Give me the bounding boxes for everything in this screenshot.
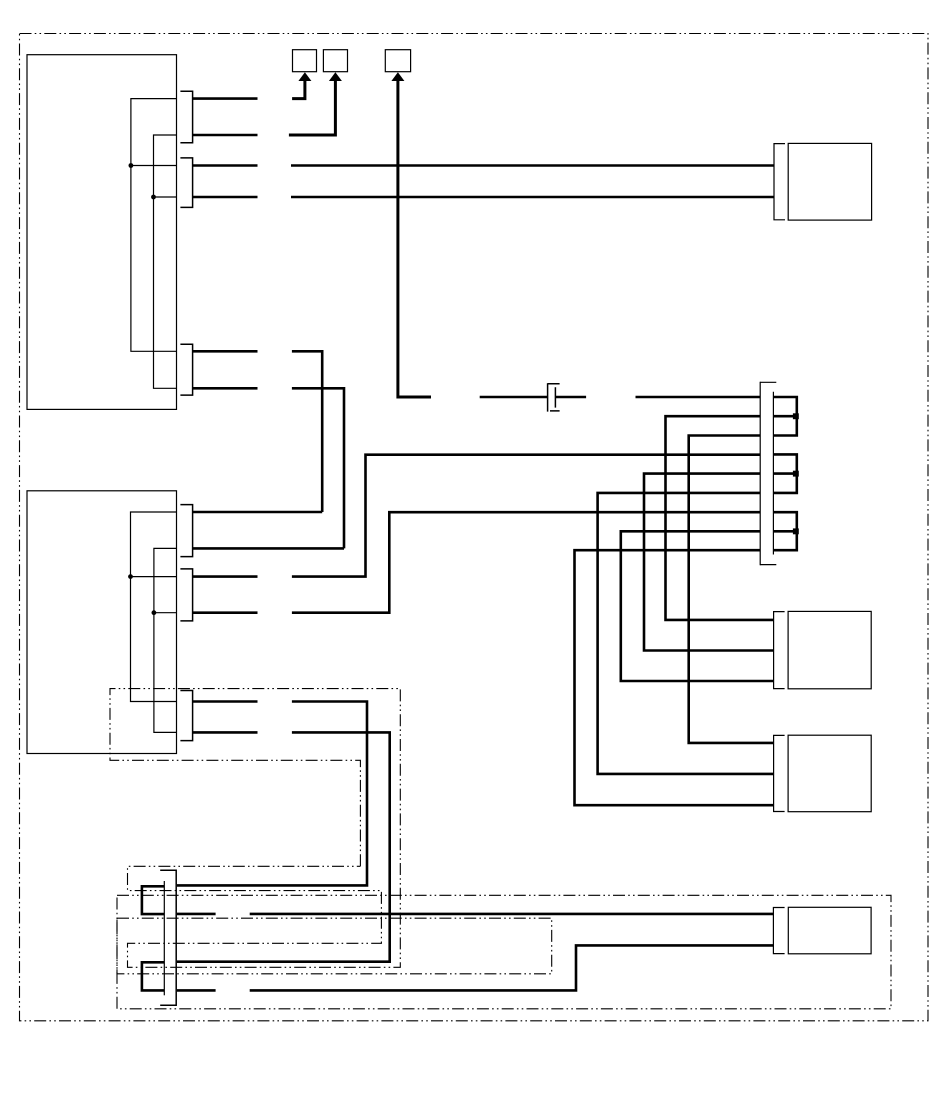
- connector C4 bracket: [180, 505, 192, 557]
- internal stub pin B5-2: [154, 612, 177, 614]
- junction dot: [151, 195, 156, 200]
- wire W3 pin3 to J2 connector: [193, 164, 258, 167]
- row3 wire (X1 to module B pin1): [689, 436, 774, 743]
- connector X1 harness-side bar: [759, 382, 761, 566]
- connector C2 bracket: [180, 158, 192, 208]
- wire W6b: [292, 388, 344, 548]
- wire W5 (C3 pin1 down to C4 pin1): [193, 350, 258, 353]
- wire W13 loop through bottom connector: [142, 886, 164, 914]
- wire W12b: [292, 512, 760, 613]
- component K4 box (bottom right): [788, 907, 871, 954]
- connector C1 bracket: [180, 91, 192, 142]
- ground lead G3 (long vertical to splice row): [398, 80, 431, 397]
- wire W1 pin1 segment: [193, 97, 258, 100]
- component K2 box (mid right): [788, 611, 871, 688]
- coil loop 3: [774, 512, 797, 550]
- junction dot: [128, 574, 133, 579]
- connector C6 bracket: [180, 691, 192, 741]
- coil loop 1: [774, 397, 797, 436]
- ground arrow A1: [298, 72, 311, 81]
- coil loop 1 junction square: [793, 413, 799, 419]
- wire W11 C5 pin1 (row4 to X1): [193, 575, 258, 578]
- wire W3b: [291, 164, 774, 167]
- ECU module M2 (lower-left box): [27, 491, 177, 754]
- K2 connector bracket: [774, 612, 785, 689]
- coil loop 3 junction square: [793, 528, 799, 534]
- K1 connector bracket: [774, 144, 785, 220]
- component K1 box (top right): [788, 143, 871, 220]
- ground arrow A2: [329, 72, 342, 81]
- wire WB to component: [250, 913, 774, 916]
- wire WB right of connector: [177, 913, 216, 916]
- row1 wire to X1: [636, 396, 761, 399]
- row9 wire (X1 to module B pin3): [575, 550, 774, 805]
- internal stub pin B5-1: [131, 576, 177, 578]
- wire W5b: [292, 351, 322, 512]
- ground box G2: [323, 50, 347, 72]
- connector X1 device-side bar: [772, 392, 774, 555]
- ground arrow A3: [391, 72, 404, 81]
- coil loop 2 center tap: [774, 472, 797, 475]
- internal bus rect A2: [131, 512, 177, 702]
- junction dot: [129, 163, 134, 168]
- K3 connector bracket: [774, 735, 785, 811]
- connector X1 bottom tick: [760, 564, 776, 566]
- wire W6 (C3 pin2 down to C4 pin2): [193, 387, 258, 390]
- inline connector J3: [548, 383, 560, 411]
- coil loop 3 center tap: [774, 530, 797, 533]
- connector C5 bracket: [180, 569, 192, 621]
- wire W13b: [177, 702, 367, 886]
- wire W10 C4 pin2: [193, 547, 344, 550]
- ground lead G1: [292, 80, 305, 99]
- ground box G3: [385, 50, 410, 72]
- wire W14 loop through bottom connector: [142, 962, 164, 990]
- row2 wire (X1 to coil-driver box pin1): [666, 416, 774, 620]
- wire WD to component: [250, 945, 774, 990]
- wire W14 C6 pin2 (shielded, down to bottom connector): [193, 731, 258, 734]
- K4 connector bracket: [773, 908, 784, 954]
- ground box G1: [293, 50, 317, 72]
- junction dot: [152, 610, 157, 615]
- row5 wire (X1 to coil-driver box pin2): [644, 474, 774, 651]
- wire W2 pin2 segment: [193, 134, 258, 137]
- internal bus rect B1: [154, 135, 177, 388]
- wire W12 C5 pin2 (row7 to X1): [193, 611, 258, 614]
- ground lead G2: [289, 80, 336, 135]
- splice row1 lead b: [555, 396, 586, 399]
- coil loop 2: [774, 454, 797, 493]
- internal bus rect A1: [131, 99, 177, 352]
- wire W14b: [177, 732, 390, 961]
- internal stub pin4: [154, 196, 177, 198]
- wire W4b: [291, 196, 774, 199]
- row6 wire (X1 to module B pin2): [598, 493, 774, 774]
- internal bus rect B2: [154, 548, 177, 732]
- shield box R3: [117, 918, 552, 974]
- bottom shield connector outer half: [160, 870, 176, 1005]
- ECU module M1 (top-left box): [27, 55, 177, 410]
- wire WD right of connector: [177, 989, 216, 992]
- connector X1 top tick: [760, 381, 776, 383]
- coil loop 2 junction square: [793, 471, 799, 477]
- wire W11b: [292, 455, 760, 577]
- splice row1 lead a: [480, 396, 548, 399]
- component K3 box (lower right): [788, 735, 871, 812]
- shield contour (C6 + droppers): [110, 689, 400, 968]
- shield box around WB/WD pair: [117, 895, 891, 1009]
- coil loop 1 center tap: [774, 415, 797, 418]
- wire W9 C4 pin1: [193, 511, 323, 514]
- internal stub pin3: [131, 165, 177, 167]
- wire W4 pin4 to J2 connector: [193, 196, 258, 199]
- connector C3 bracket: [180, 344, 192, 395]
- row8 wire (X1 to coil-driver box pin3): [621, 531, 774, 681]
- wire W13 C6 pin1 (shielded, down to bottom connector): [193, 700, 258, 703]
- bottom shield connector inner half: [163, 881, 165, 995]
